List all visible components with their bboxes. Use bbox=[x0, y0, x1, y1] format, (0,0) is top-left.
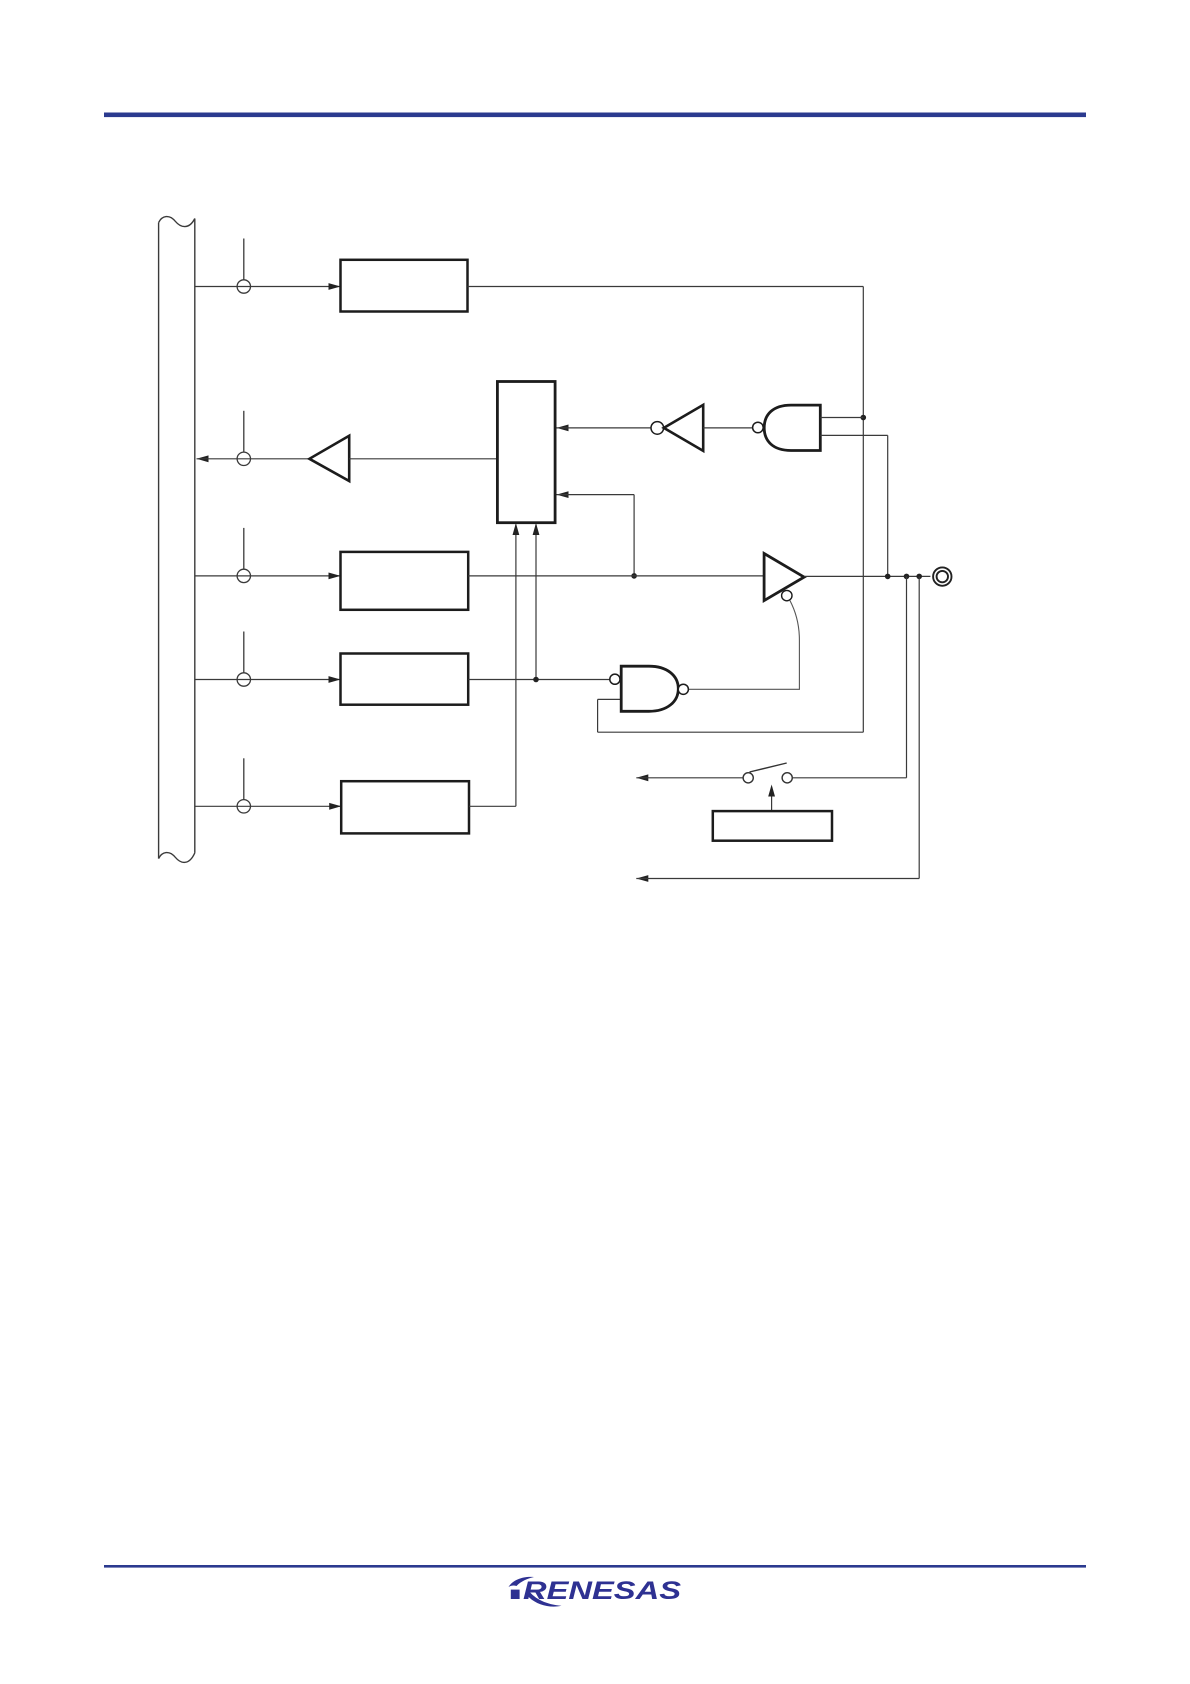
pin 5 circle bbox=[237, 800, 250, 813]
register box 5 bbox=[341, 781, 469, 833]
wire: NAND U1 input B horizontal bbox=[820, 434, 887, 436]
inverter G1 (points left) bbox=[664, 405, 703, 451]
node: NAND U1 feedback junction bbox=[885, 574, 891, 580]
wire: switch line left bbox=[636, 777, 743, 779]
svg-text:RENESAS: RENESAS bbox=[523, 1578, 682, 1605]
wire: inverter to big box input 1 bbox=[557, 427, 651, 429]
arrowhead up (right) bbox=[533, 523, 540, 535]
register box 3 bbox=[341, 552, 469, 610]
bus bottom wavy break bbox=[159, 853, 195, 863]
wire: buffer B2 output to pad bbox=[804, 575, 930, 577]
bus left line bbox=[158, 223, 160, 859]
wire: enable line from NAND U2 output bbox=[688, 600, 799, 689]
pin 3 circle bbox=[237, 569, 250, 582]
wire: box 4 output to NAND U2 bbox=[468, 679, 610, 681]
pin 5 stub bbox=[243, 758, 245, 799]
wire: vertical from row1 down to NAND input / feedback bbox=[862, 287, 864, 733]
NAND U2 body bbox=[621, 666, 678, 711]
NAND U2 input bubble bbox=[610, 674, 620, 684]
wire: bus to box 5 bbox=[195, 805, 341, 807]
pad (I/O pin, double circle) bbox=[933, 567, 951, 585]
NAND U1 body bbox=[764, 405, 820, 450]
wire: box 5 output, corner up bbox=[469, 805, 516, 807]
big box input 2: arrowhead bbox=[557, 491, 569, 498]
arrowhead into box 4 bbox=[329, 676, 341, 683]
header rule bbox=[104, 113, 1086, 118]
wire: feedback vertical to NAND U2 second input bbox=[597, 699, 599, 732]
NAND U1 (mirrored, faces left) bubble bbox=[753, 422, 764, 433]
pin 1 stub bbox=[243, 239, 245, 280]
pin 1 circle bbox=[237, 280, 250, 293]
wire: NAND U1 output to inverter G1 bbox=[703, 427, 753, 429]
node: junction at NAND U1 top input bbox=[861, 415, 867, 421]
switch SW blade bbox=[750, 763, 787, 772]
wire: NAND U1 input A (from row1 vertical) bbox=[820, 417, 863, 419]
footer rule bbox=[104, 1565, 1086, 1568]
wire: switch to vertical bbox=[792, 777, 906, 779]
pin 4 stub bbox=[243, 632, 245, 673]
output buffer B2 (points right) bbox=[764, 554, 804, 601]
node: junction row4 / vertical to big box bbox=[533, 677, 539, 683]
data bus (left vertical bus with wavy broken ends) bbox=[159, 217, 195, 863]
arrowhead up (left) bbox=[513, 523, 520, 535]
buffer B2 enable bubble bbox=[782, 590, 792, 600]
inverter G1 bubble bbox=[651, 422, 664, 435]
arrowhead into box 3 bbox=[329, 573, 341, 580]
switch SW left contact bbox=[743, 773, 753, 783]
node: switch line junction bbox=[904, 574, 910, 580]
wire: big box input 2 horizontal bbox=[557, 494, 635, 496]
pin 3 stub bbox=[243, 528, 245, 569]
wire: big box input 2 vertical down to row3 bbox=[633, 495, 635, 576]
node: bottom feedback junction bbox=[916, 574, 922, 580]
wire: NAND U1 input B vertical to output node bbox=[887, 435, 889, 576]
pin 4 circle bbox=[237, 673, 250, 686]
wire: into NAND U2 lower input bbox=[598, 698, 622, 700]
arrowhead left (switch line) bbox=[636, 774, 648, 781]
arrowhead into bus (row 2) bbox=[197, 455, 209, 462]
arrowhead into big box right edge input 1 bbox=[557, 425, 569, 432]
NAND U2 output bubble bbox=[678, 684, 688, 694]
wire: vertical from output node down to switch bbox=[906, 576, 908, 777]
register box 4 bbox=[341, 654, 469, 705]
control register box bbox=[713, 811, 832, 841]
arrowhead up (switch control) bbox=[768, 785, 775, 797]
Renesas logo bbox=[509, 1577, 682, 1607]
wire: box 3 output to output buffer bbox=[468, 575, 764, 577]
switch SW right contact bbox=[782, 773, 792, 783]
arrowhead into box 1 bbox=[329, 283, 341, 290]
wire: feedback horizontal y=732 bbox=[598, 731, 864, 733]
wire: bus to box 4 bbox=[195, 679, 341, 681]
wire: buffer output to bus bbox=[197, 458, 310, 460]
register box 1 bbox=[341, 260, 468, 312]
pin 2 circle bbox=[237, 452, 250, 465]
bus right line bbox=[194, 219, 196, 853]
bus top wavy break bbox=[159, 217, 195, 227]
wire: vertical from row5 up into big box bbox=[515, 525, 517, 807]
wire: bottom feedback horizontal bbox=[636, 878, 919, 880]
arrowhead left (bottom feedback) bbox=[636, 875, 648, 882]
wire: bus to register box 1 bbox=[195, 286, 341, 288]
wire: vertical from output node down to bottom feedback bbox=[918, 576, 920, 878]
arrowhead into box 5 bbox=[329, 803, 341, 810]
pin 2 stub bbox=[243, 411, 245, 452]
buffer B1 (read buffer, points left) bbox=[309, 436, 349, 481]
wire: big box to buffer B1 bbox=[349, 458, 497, 460]
node: junction row3 / input2 bbox=[631, 573, 637, 579]
wire: vertical from row4 up into big box bbox=[535, 525, 537, 680]
wire: bus to box 3 bbox=[195, 575, 341, 577]
wire: control arrow up to switch blade bbox=[771, 787, 773, 811]
wire: box 1 output to right bbox=[468, 286, 864, 288]
